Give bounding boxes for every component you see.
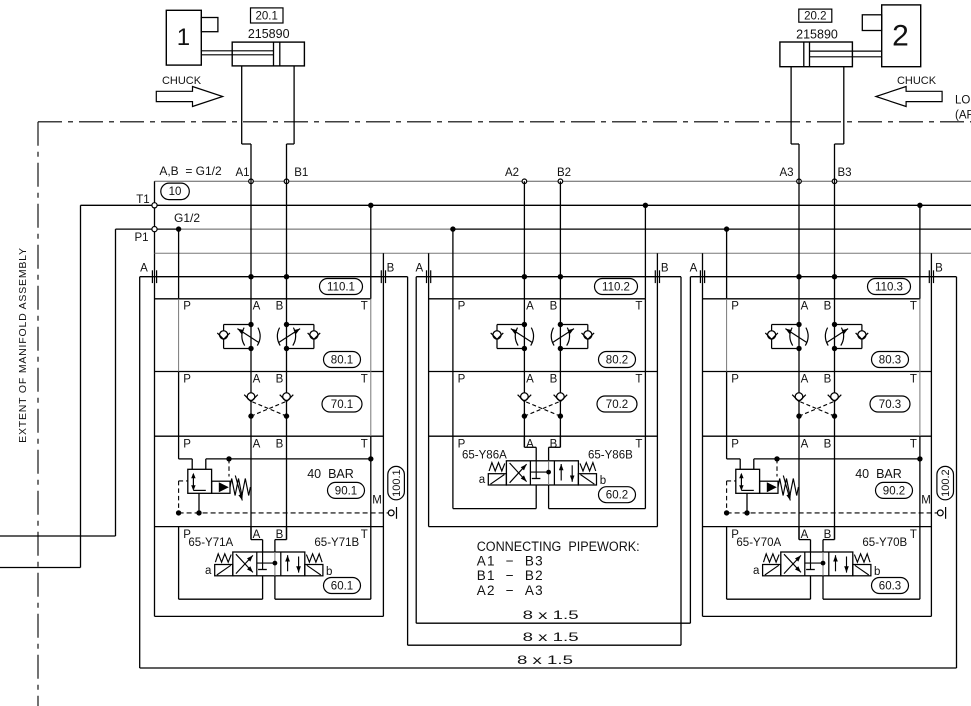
pipe break port A G2 <box>426 270 428 283</box>
svg-text:65-Y71A: 65-Y71A <box>188 537 233 549</box>
svg-text:B: B <box>276 439 284 451</box>
svg-text:P: P <box>458 374 466 386</box>
oval tag 90.1 <box>328 482 365 498</box>
spring adjustment G1 <box>230 476 250 501</box>
valve G2 crossed arrows (left square) <box>510 463 527 483</box>
svg-text:A: A <box>801 301 809 313</box>
svg-text:A: A <box>801 439 809 451</box>
wire G1 valve outlet to T column <box>206 459 371 469</box>
valve G3 centre position <box>805 552 826 576</box>
check valve bypass G3 <box>760 481 778 493</box>
svg-text:P: P <box>183 301 191 313</box>
cylinder 20.2 barrel <box>780 42 853 67</box>
manifold divider G1-3 <box>155 526 384 528</box>
pilot sense line G1 (dashed) <box>228 459 230 477</box>
boundary extent of manifold assembly (dash-dot horizontal) <box>38 121 971 123</box>
svg-text:60.2: 60.2 <box>606 490 628 502</box>
wire A/B manifold pipe G3 <box>690 276 956 278</box>
oval tag 60.3 <box>872 578 909 594</box>
solenoid b G3 <box>853 565 871 576</box>
pipe break port B G3 <box>928 270 930 283</box>
manifold inner top edge G1 <box>155 298 371 300</box>
svg-text:8 x 1.5: 8 x 1.5 <box>517 655 573 667</box>
svg-text:B: B <box>824 439 832 451</box>
node A2 <box>522 179 527 184</box>
measuring point M G3 <box>937 507 945 519</box>
svg-text:a: a <box>479 474 486 486</box>
svg-text:LOC: LOC <box>955 95 971 107</box>
junction T1-G1 <box>368 203 373 208</box>
wire P column G3 <box>726 229 728 436</box>
port circle T1 <box>152 203 157 208</box>
port labels P A B T G3 row70 <box>731 374 917 386</box>
wire G3 valve outlet to T column <box>754 459 920 469</box>
oval tag 110.3 <box>868 279 911 295</box>
wire P column G1 <box>178 229 180 436</box>
svg-text:A: A <box>526 438 534 450</box>
svg-text:CONNECTING PIPEWORK:: CONNECTING PIPEWORK: <box>477 539 640 554</box>
svg-text:A2 − A3: A2 − A3 <box>477 583 543 598</box>
valve G1 parallel arrows (right square) <box>285 555 301 572</box>
gauge line G1 (dashed) <box>179 512 389 514</box>
svg-text:b: b <box>326 566 332 578</box>
oval tag 70.1 <box>322 396 362 412</box>
svg-text:8 x 1.5: 8 x 1.5 <box>523 632 579 644</box>
svg-text:10: 10 <box>169 186 182 198</box>
svg-text:P: P <box>731 301 739 313</box>
flow control valve G1B <box>277 322 320 351</box>
svg-text:40 BAR: 40 BAR <box>307 467 354 481</box>
svg-text:215890: 215890 <box>248 27 290 41</box>
junction pilot tap G3 <box>774 456 779 461</box>
svg-text:T: T <box>635 438 642 450</box>
wire B to valve G1 <box>275 527 287 552</box>
svg-text:B: B <box>824 529 832 541</box>
oval tag 80.2 <box>599 352 636 368</box>
svg-text:A3: A3 <box>779 167 793 179</box>
svg-text:T: T <box>910 374 917 386</box>
svg-text:B: B <box>661 263 669 275</box>
junction A-G3 <box>796 274 801 279</box>
wire P1 bus line <box>0 229 971 536</box>
solenoid b G1 <box>305 565 323 576</box>
return spring a G3 <box>764 554 780 562</box>
junction T1-G3 <box>917 203 922 208</box>
svg-text:B: B <box>935 263 943 275</box>
svg-text:B: B <box>550 374 558 386</box>
svg-text:CHUCK: CHUCK <box>162 75 202 87</box>
svg-text:A1: A1 <box>235 167 249 179</box>
svg-text:A: A <box>801 374 809 386</box>
pilot lines crossed G2 <box>524 401 560 416</box>
svg-text:1: 1 <box>177 24 190 51</box>
subplate box left G2 <box>453 436 536 508</box>
svg-text:G1/2: G1/2 <box>174 211 200 225</box>
boundary extent of manifold assembly (dash-dot vertical) <box>37 122 39 706</box>
wire A to valve G1 <box>251 527 263 552</box>
wire A column G1 <box>250 144 252 540</box>
wire T column G1 <box>370 205 372 436</box>
svg-text:T: T <box>635 374 642 386</box>
subplate box left G1 <box>179 527 263 600</box>
cylinder 20.2 piston rod <box>810 51 882 57</box>
wire A column G2 <box>523 181 525 447</box>
oval tag 80.3 <box>872 352 909 368</box>
oval tag 100.2 (rotated) <box>937 466 954 499</box>
svg-text:P: P <box>458 301 466 313</box>
junction B-G3 <box>832 274 837 279</box>
flow control valve G3B <box>825 322 868 351</box>
pipe break port B G2 <box>654 270 656 283</box>
svg-text:T: T <box>361 439 368 451</box>
svg-text:70.1: 70.1 <box>331 399 353 411</box>
manifold divider G1-1 <box>155 371 384 373</box>
manifold divider G2-1 <box>429 371 658 373</box>
svg-text:40 BAR: 40 BAR <box>855 467 902 481</box>
valve G3 crossed arrows (left square) <box>784 554 801 573</box>
junction P1-G1 <box>176 226 181 231</box>
valve G3 parallel arrows (right square) <box>833 555 849 572</box>
manifold divider G3-2 <box>703 435 932 437</box>
wire B column G2 <box>559 181 561 447</box>
port labels P A B T G1 row80 <box>183 301 368 313</box>
solenoid a G1 <box>215 565 233 576</box>
svg-text:T: T <box>910 439 917 451</box>
svg-text:B1 − B2: B1 − B2 <box>477 568 543 583</box>
svg-text:90.1: 90.1 <box>335 485 357 497</box>
pilot check valve G1 (B side) <box>280 393 294 419</box>
gauge line G3 (dashed) <box>727 512 938 514</box>
pipe loop B1-B2 <box>408 277 681 646</box>
flow control valve G2B <box>551 322 594 351</box>
pipe break port B G1 <box>380 270 382 283</box>
svg-text:a: a <box>753 565 760 577</box>
wire A/B manifold pipe G1 <box>140 276 408 278</box>
pipe loop A2-A3 <box>416 277 690 624</box>
svg-text:90.2: 90.2 <box>883 485 905 497</box>
svg-text:A: A <box>253 374 261 386</box>
node A3 <box>797 179 802 184</box>
oval tag 90.2 <box>876 482 913 498</box>
wire manifold top bus line <box>155 252 971 254</box>
svg-text:B: B <box>550 301 558 313</box>
svg-text:M: M <box>921 495 931 507</box>
oval tag 80.1 <box>324 352 361 368</box>
svg-text:2: 2 <box>892 20 909 53</box>
subplate box left G3 <box>727 527 811 600</box>
pilot line drain G3 <box>744 493 749 515</box>
pilot check valve G3 (A side) <box>792 393 806 419</box>
svg-text:T: T <box>635 301 642 313</box>
pilot check valve G3 (B side) <box>828 393 842 419</box>
wire P column G2 <box>452 229 454 436</box>
port labels P A B T G2 row80 <box>458 301 643 313</box>
svg-text:B: B <box>824 301 832 313</box>
svg-text:A: A <box>253 439 261 451</box>
spring adjustment G3 <box>778 476 798 501</box>
oval tag 60.2 <box>599 487 636 503</box>
pressure reducing valve G1 body <box>188 469 212 493</box>
wire B column G3 <box>834 144 836 540</box>
return spring b G3 <box>854 554 870 562</box>
svg-text:(AR: (AR <box>955 110 971 122</box>
wire B to valve G3 <box>823 527 835 552</box>
pilot check valve G1 (A side) <box>244 393 258 419</box>
wire T column G3 <box>919 205 921 436</box>
wire B to valve G2 <box>549 436 561 461</box>
svg-text:B: B <box>824 374 832 386</box>
svg-text:P: P <box>183 374 191 386</box>
cylinder actuator 1 body box <box>166 10 218 65</box>
solenoid a G2 <box>488 474 506 485</box>
junction B-G2 <box>558 274 563 279</box>
pilot lines crossed G3 <box>799 401 835 416</box>
flow control valve G3A <box>765 322 808 351</box>
oval tag 110.1 <box>320 279 363 295</box>
svg-text:215890: 215890 <box>796 28 838 42</box>
pilot line to valve G1 (dashed) <box>176 481 188 516</box>
svg-text:65-Y70A: 65-Y70A <box>736 537 781 549</box>
oval tag 110.2 <box>595 279 638 295</box>
svg-text:100.1: 100.1 <box>391 469 403 497</box>
svg-text:T: T <box>910 301 917 313</box>
svg-text:65-Y71B: 65-Y71B <box>314 537 359 549</box>
svg-text:A: A <box>253 529 261 541</box>
svg-text:P: P <box>731 439 739 451</box>
port labels P A B T G2 row70 <box>458 374 643 386</box>
flow control valve G2A <box>491 322 534 351</box>
svg-text:B2: B2 <box>557 167 571 179</box>
manifold section frame G3 <box>703 253 932 616</box>
svg-text:B3: B3 <box>837 167 851 179</box>
label box 20.1 <box>251 8 284 23</box>
cylinder 20.1 piston rod <box>201 51 273 55</box>
junction P1-G3 <box>724 226 729 231</box>
directional valve G3 body <box>781 552 853 576</box>
svg-text:80.3: 80.3 <box>879 354 901 366</box>
return spring b G2 <box>580 463 596 471</box>
svg-text:A1 − B3: A1 − B3 <box>477 554 543 569</box>
wire A,B bus line <box>155 181 971 276</box>
oval tag 70.2 <box>597 396 637 412</box>
subplate box right G1 <box>275 527 371 600</box>
svg-text:65-Y86A: 65-Y86A <box>462 449 507 461</box>
svg-text:A: A <box>690 263 698 275</box>
svg-text:B: B <box>276 374 284 386</box>
svg-text:20.1: 20.1 <box>256 11 278 23</box>
wire cyl2 port A to A3 <box>791 67 799 144</box>
subplate box right G2 <box>549 436 646 508</box>
subplate box right G3 <box>823 527 920 600</box>
solenoid a G3 <box>763 565 781 576</box>
svg-text:B: B <box>276 529 284 541</box>
port labels P A B T G3 row90 <box>731 439 917 451</box>
manifold divider G3-1 <box>703 371 932 373</box>
svg-text:70.3: 70.3 <box>879 399 901 411</box>
chuck direction arrow left <box>876 87 942 107</box>
svg-text:T1: T1 <box>136 194 149 206</box>
junction A-G1 <box>248 274 253 279</box>
pilot sense line G3 (dashed) <box>776 459 778 477</box>
node B2 <box>558 179 563 184</box>
svg-text:A2: A2 <box>505 167 519 179</box>
svg-text:70.2: 70.2 <box>606 399 628 411</box>
svg-text:T: T <box>361 374 368 386</box>
svg-text:A: A <box>526 374 534 386</box>
svg-text:8 x 1.5: 8 x 1.5 <box>523 610 579 622</box>
svg-text:20.2: 20.2 <box>804 11 826 23</box>
junction B-G1 <box>284 274 289 279</box>
oval tag 100.1 (rotated) <box>388 466 405 499</box>
pressure reducing valve G1 supply from P <box>179 436 193 469</box>
junction P1-G2 <box>450 226 455 231</box>
manifold divider G1-2 <box>155 435 384 437</box>
svg-text:P: P <box>731 374 739 386</box>
pipe loop A1-B3 <box>140 277 957 668</box>
svg-text:A,B = G1/2: A,B = G1/2 <box>159 164 222 178</box>
svg-text:CHUCK: CHUCK <box>897 75 937 87</box>
pressure reducing valve G3 supply from P <box>727 436 741 469</box>
svg-text:B1: B1 <box>294 167 308 179</box>
svg-text:T: T <box>361 301 368 313</box>
directional valve G2 body <box>506 461 578 485</box>
svg-text:80.1: 80.1 <box>331 354 353 366</box>
wire T1 bus line <box>0 205 971 567</box>
port labels P A B T G3 row80 <box>731 301 917 313</box>
svg-text:60.3: 60.3 <box>879 580 901 592</box>
node B3 <box>832 179 837 184</box>
svg-text:A: A <box>526 301 534 313</box>
valve G1 crossed arrows (left square) <box>236 554 253 573</box>
svg-text:b: b <box>874 566 880 578</box>
svg-text:80.2: 80.2 <box>606 354 628 366</box>
pipe break port A G3 <box>699 270 701 283</box>
manifold divider G2-2 <box>429 435 658 437</box>
oval tag 70.3 <box>870 396 910 412</box>
valve G2 parallel arrows (right square) <box>559 464 575 482</box>
wire B column G1 <box>286 144 288 540</box>
return spring a G1 <box>215 554 231 562</box>
svg-text:110.3: 110.3 <box>875 281 903 293</box>
flow control valve G1A <box>217 322 260 351</box>
check valve bypass G1 <box>212 481 230 493</box>
svg-text:65-Y70B: 65-Y70B <box>862 537 907 549</box>
label box 20.2 <box>799 9 832 22</box>
manifold section frame G2 <box>429 253 658 526</box>
svg-text:P1: P1 <box>134 232 148 244</box>
directional valve G1 body <box>233 552 305 576</box>
svg-text:EXTENT OF MANIFOLD ASSEMBLY: EXTENT OF MANIFOLD ASSEMBLY <box>17 247 29 443</box>
svg-text:110.2: 110.2 <box>602 281 630 293</box>
wire A/B manifold pipe G2 <box>416 276 681 278</box>
manifold divider G3-3 <box>703 526 932 528</box>
cylinder actuator 2 body box <box>862 5 920 67</box>
svg-text:A: A <box>801 529 809 541</box>
wire A to valve G2 <box>524 436 536 461</box>
port circle P1 <box>152 227 157 232</box>
svg-text:A: A <box>140 263 148 275</box>
manifold section frame G1 <box>155 253 384 616</box>
manifold inner top edge G3 <box>703 298 920 300</box>
svg-text:110.1: 110.1 <box>327 281 355 293</box>
pilot lines crossed G1 <box>251 401 287 416</box>
return spring b G1 <box>306 554 322 562</box>
wire T column lower G3 <box>919 436 921 526</box>
svg-text:A: A <box>415 263 423 275</box>
oval tag 10 <box>161 183 190 200</box>
pilot line to valve G3 (dashed) <box>724 481 736 516</box>
pilot check valve G2 (A side) <box>518 393 532 419</box>
return spring a G2 <box>489 463 505 471</box>
svg-text:65-Y86B: 65-Y86B <box>588 449 633 461</box>
wire T column G2 <box>644 205 646 436</box>
junction outlet T G3 <box>917 456 922 461</box>
svg-text:b: b <box>600 475 606 487</box>
junction outlet T G1 <box>368 456 373 461</box>
wire cyl2 port B to B3 <box>835 67 844 144</box>
valve G2 centre position <box>530 461 551 485</box>
node B1 <box>284 179 289 184</box>
svg-text:a: a <box>205 565 212 577</box>
wire T column lower G1 <box>370 436 372 526</box>
junction pilot tap G1 <box>226 456 231 461</box>
manifold inner top edge G2 <box>429 298 646 300</box>
pressure reducing valve G3 body <box>736 469 760 493</box>
svg-text:B: B <box>550 438 558 450</box>
svg-text:T: T <box>361 529 368 541</box>
pilot line drain G1 <box>196 493 201 515</box>
wire A column G3 <box>798 144 800 540</box>
oval tag 60.1 <box>324 578 361 594</box>
cylinder 20.1 barrel <box>232 42 304 66</box>
valve G1 centre position <box>257 552 278 576</box>
port labels P A B T G1 row70 <box>183 374 368 386</box>
node A1 <box>249 179 254 184</box>
pilot check valve G2 (B side) <box>554 393 568 419</box>
svg-text:B: B <box>276 301 284 313</box>
port labels P A B T G1 row90 <box>183 439 368 451</box>
svg-text:M: M <box>372 495 382 507</box>
wire A to valve G3 <box>799 527 811 552</box>
wire cyl1 port A to A1 <box>242 66 251 144</box>
svg-text:B: B <box>387 263 395 275</box>
svg-text:P: P <box>183 439 191 451</box>
svg-text:100.2: 100.2 <box>940 469 952 497</box>
pipe break port A G1 <box>151 270 153 283</box>
svg-text:60.1: 60.1 <box>331 580 353 592</box>
measuring point M G1 <box>388 507 396 519</box>
junction A-G2 <box>522 274 527 279</box>
junction T1-G2 <box>643 203 648 208</box>
svg-text:A: A <box>253 301 261 313</box>
chuck direction arrow right <box>156 87 222 107</box>
wire cyl1 port B to B1 <box>287 66 295 144</box>
svg-text:T: T <box>910 529 917 541</box>
solenoid b G2 <box>578 474 596 485</box>
